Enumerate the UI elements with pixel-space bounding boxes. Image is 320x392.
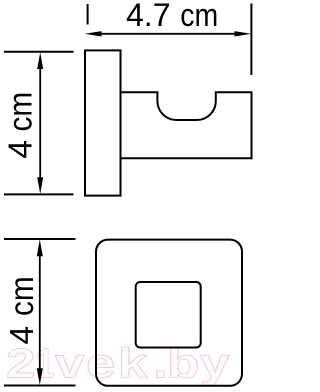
watermark 21vek.by	[6, 340, 230, 388]
arrow left	[85, 31, 102, 36]
svg-text:e: e	[86, 341, 115, 388]
arrow down lower	[37, 368, 43, 385]
dimension line lower 4 cm	[39, 251, 41, 373]
svg-text:cm: cm	[180, 0, 218, 33]
svg-text:v: v	[55, 341, 85, 388]
arrow down	[37, 177, 43, 194]
dimension line upper 4 cm	[39, 64, 41, 182]
svg-text:cm: cm	[2, 276, 40, 316]
dimension line 4.7 cm	[98, 33, 239, 35]
arrow up lower	[37, 239, 43, 256]
bottom tick (upper 4 cm dim)	[4, 193, 74, 195]
svg-text:1: 1	[36, 340, 54, 387]
svg-text:2: 2	[6, 341, 35, 388]
svg-text:4: 4	[3, 140, 40, 159]
arrow up	[37, 52, 43, 69]
svg-text:4.7: 4.7	[126, 0, 170, 33]
bottom tick (lower 4 cm dim)	[4, 385, 76, 387]
outer rounded square (front view)	[96, 240, 242, 386]
top tick (lower 4 cm dim)	[4, 238, 76, 240]
extension line right (4.7 cm dim)	[250, 4, 252, 76]
svg-text:y: y	[200, 341, 230, 388]
top tick (upper 4 cm dim)	[4, 51, 74, 53]
svg-text:4: 4	[4, 326, 41, 345]
extension tick left (4.7 cm dim)	[87, 4, 89, 25]
svg-text:cm: cm	[1, 92, 39, 132]
hook arm with U notch (side view)	[121, 92, 252, 158]
wall plate (side view)	[85, 50, 121, 195]
arrow right	[235, 31, 252, 36]
inner square (front view)	[136, 282, 201, 348]
